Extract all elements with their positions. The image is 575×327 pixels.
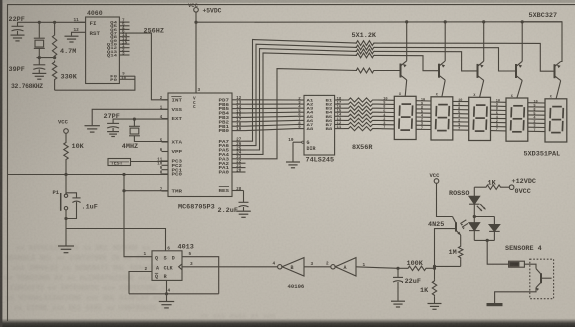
junction EXT-crystal: [133, 118, 136, 121]
wire: vertical net PC0-TMR-4013 Q: [124, 175, 152, 257]
wire: G to ground: [292, 142, 294, 161]
wire: crystal top lead: [38, 22, 40, 38]
wire: crystal to XTA: [134, 136, 168, 142]
svg-text:D: D: [172, 256, 175, 262]
svg-text:18: 18: [236, 124, 241, 128]
resistor 1M: [460, 259, 462, 266]
resistor 4.7M: [54, 22, 56, 33]
svg-text:5XBC327: 5XBC327: [529, 12, 558, 20]
svg-text:7: 7: [421, 127, 423, 131]
svg-text:25: 25: [236, 147, 241, 151]
svg-text:1: 1: [144, 252, 147, 257]
wire: collector Q5 to display DS5: [556, 81, 561, 99]
svg-text:R: R: [164, 274, 167, 280]
resistor network 8X56R element 3: [344, 106, 377, 110]
transistor Q3 BC327: [478, 61, 484, 80]
wire: collector Q3 to display DS3: [480, 80, 484, 97]
inverter U5B 40106: [278, 265, 282, 269]
wire: 1M bottom link: [435, 265, 461, 267]
svg-text:4N25: 4N25: [428, 221, 444, 229]
wire: inv A input net: [356, 267, 398, 269]
resistor 330K: [52, 61, 56, 82]
junction PC0-P1: [64, 173, 67, 176]
svg-text:Q: Q: [155, 274, 158, 280]
junction 100K-1K node: [433, 267, 436, 270]
capacitor 39PF: [38, 58, 40, 65]
svg-text:SENSORE 4: SENSORE 4: [505, 245, 542, 253]
svg-text:B: B: [291, 265, 294, 271]
display DS4 7-segment: [506, 95, 528, 141]
power terminal +12VDC / 0VCC: [509, 185, 514, 190]
wire: display segment bus: [377, 100, 545, 132]
svg-text:4: 4: [168, 288, 171, 293]
resistor 1K (12V): [484, 185, 503, 189]
wire: branch to 4013 S: [66, 229, 166, 251]
svg-text:16: 16: [236, 115, 241, 119]
wire: VCC to 4N25 collector: [437, 183, 453, 216]
transistor Q1 BC327: [401, 61, 407, 80]
svg-text:256HZ: 256HZ: [144, 27, 164, 35]
wire: PA staircase 3: [246, 49, 358, 150]
svg-text:11: 11: [337, 126, 342, 130]
display DS1 7-segment: [394, 93, 416, 139]
phototransistor Q6 (sensor): [540, 273, 542, 283]
ground (27PF): [107, 132, 119, 137]
svg-text:27PF: 27PF: [104, 113, 120, 121]
junction sensor branch: [486, 239, 489, 242]
svg-text:40106: 40106: [288, 283, 305, 290]
display DS2 7-segment: [431, 94, 453, 140]
capacitor 22PF: [12, 25, 24, 27]
resistor network 8X56R element 5: [344, 114, 377, 118]
svg-text:RES: RES: [219, 189, 230, 194]
svg-text:VPP: VPP: [172, 150, 183, 155]
wire: base route T5: [374, 43, 555, 71]
wire: to R4: [487, 240, 508, 264]
wire: PC0 net horizontal: [8, 174, 168, 176]
svg-text:TMR: TMR: [172, 190, 183, 195]
svg-text:6: 6: [167, 246, 170, 251]
svg-text:5X1.2K: 5X1.2K: [352, 32, 377, 40]
wire: base route T3: [374, 51, 478, 71]
svg-text:15: 15: [236, 110, 241, 114]
svg-text:C: C: [193, 105, 196, 110]
ground (39PF): [32, 73, 46, 79]
resistor network 8X56R element 1: [344, 98, 377, 102]
svg-text:20: 20: [236, 169, 241, 173]
wire: VSS to ground: [92, 109, 168, 125]
wire: PA staircase 2: [246, 44, 358, 145]
junction R-rail: [165, 292, 168, 295]
junction 1M bottom: [433, 265, 436, 268]
svg-text:21: 21: [236, 165, 241, 169]
wire: collector Q1 to display DS1: [405, 80, 407, 96]
svg-text:P0: P0: [110, 79, 118, 83]
svg-text:10K: 10K: [72, 143, 85, 151]
ground (22PF): [11, 35, 25, 41]
svg-text:+5VDC: +5VDC: [203, 8, 222, 15]
resistor 1.2K #2: [355, 45, 375, 50]
IC U3 74LS245 box: [304, 95, 335, 155]
optocoupler light arrows: [460, 220, 466, 224]
junction node crystal top: [38, 21, 41, 24]
junction VCC rail: [194, 21, 197, 24]
wire: VCC rail to transistors: [196, 21, 562, 23]
svg-text:B8: B8: [326, 128, 334, 132]
ground (sensor) thick bar: [487, 303, 503, 306]
wire: base route T2: [374, 55, 439, 70]
svg-text:3: 3: [198, 88, 201, 93]
svg-text:2.2uF: 2.2uF: [218, 207, 238, 215]
resistor network 8X56R element 6: [344, 118, 377, 122]
wire: PA staircase 4: [246, 53, 358, 154]
svg-text:VSS: VSS: [172, 108, 183, 113]
wire: VCC vertical to MCU pin 3: [195, 12, 197, 93]
svg-text:7: 7: [458, 128, 460, 132]
svg-text:17: 17: [236, 119, 241, 123]
transistor Q2 BC327: [439, 61, 445, 80]
svg-text:4.7M: 4.7M: [60, 48, 76, 56]
wire: base route T4: [374, 47, 516, 71]
junction PC0-TMR branch: [122, 173, 125, 176]
wire: junction to diode: [474, 216, 494, 218]
svg-text:+12VDC: +12VDC: [512, 178, 536, 186]
display gap pin numbers: [383, 98, 538, 133]
IC U4 4013 box: [152, 251, 182, 281]
svg-text:19: 19: [236, 128, 241, 132]
wire: base route T1: [374, 70, 401, 72]
diode D1 protection: [493, 217, 495, 225]
capacitor 27PF: [107, 122, 119, 124]
junction .22uF node: [396, 267, 399, 270]
svg-text:Q: Q: [155, 256, 158, 262]
svg-text:1M: 1M: [449, 249, 457, 257]
svg-text:100K: 100K: [407, 260, 424, 268]
wire: 1K down to LED: [473, 187, 475, 196]
LED 4N25 internal: [473, 217, 475, 223]
LED ROSSO (red indicator): [469, 196, 480, 204]
wire: PA staircase 1: [246, 40, 358, 142]
wire: emitter Q2 to VCC rail: [444, 22, 446, 61]
svg-text:XTA: XTA: [172, 141, 183, 146]
ground (4013): [159, 302, 174, 308]
transistor 4N25 phototransistor: [455, 222, 457, 231]
wire: collector Q2 to display DS2: [442, 80, 445, 97]
svg-text:13: 13: [236, 102, 241, 106]
junction P1 bottom: [64, 217, 67, 220]
resistor network 8X56R element 7: [344, 122, 377, 126]
junction LED-diode: [473, 215, 476, 218]
svg-text:4MHZ: 4MHZ: [122, 143, 138, 151]
svg-text:74LS245: 74LS245: [306, 156, 335, 164]
svg-text:A: A: [344, 265, 347, 271]
svg-text:39PF: 39PF: [9, 66, 25, 74]
ground (2.2uF): [236, 211, 251, 217]
svg-text:VCC: VCC: [58, 119, 69, 126]
display DS3 7-segment: [469, 94, 491, 140]
wire: LED to junction: [473, 204, 475, 216]
photo left edge: [0, 0, 2, 327]
IC U2 MC68705P3 box: [168, 93, 232, 197]
svg-text:S: S: [164, 256, 167, 262]
svg-text:A8: A8: [307, 128, 315, 132]
IC U1 4060 box: [86, 17, 120, 84]
wire: rail to ground: [166, 294, 168, 301]
svg-text:EXT: EXT: [172, 117, 183, 122]
wire: 10K to P1: [65, 161, 67, 195]
wire: PA staircase 5: [246, 69, 358, 159]
svg-text:26: 26: [236, 143, 241, 147]
svg-text:7: 7: [496, 128, 498, 132]
svg-text:.22uF: .22uF: [401, 278, 421, 286]
svg-text:1K: 1K: [420, 287, 429, 295]
wire: 330K to 4060 P0 pin loop: [55, 76, 135, 90]
svg-text:FI: FI: [90, 20, 97, 27]
junction TMR: [122, 189, 125, 192]
4013 pin labels: [155, 256, 175, 280]
svg-text:7: 7: [383, 126, 385, 130]
sensor dotted enclosure: [530, 259, 554, 299]
svg-text:1K: 1K: [488, 179, 497, 187]
svg-text:7: 7: [533, 129, 535, 133]
svg-text:A: A: [156, 265, 159, 271]
capacitor .22uF: [397, 268, 399, 277]
photo bottom edge shadow: [0, 319, 575, 327]
svg-text:22PF: 22PF: [9, 16, 25, 24]
wire: crystal bottom node: [37, 57, 55, 59]
resistor 100K: [406, 266, 428, 270]
wire: PB bus MCU to 74LS245: [246, 100, 297, 131]
LED emission arrows: [477, 206, 482, 211]
svg-text:4013: 4013: [178, 243, 194, 251]
resistor 1.2K #3: [355, 49, 375, 54]
inverter U5A 40106: [331, 265, 335, 269]
svg-text:MC68705P3: MC68705P3: [178, 204, 215, 212]
svg-text:23: 23: [236, 156, 241, 160]
wire: cathode rail: [474, 239, 494, 241]
svg-text:P1: P1: [53, 189, 60, 196]
wire: emitter Q4 to VCC rail: [521, 22, 523, 61]
resistor 1.2K #1: [355, 41, 375, 46]
capacitor 2.2uF: [239, 201, 249, 203]
wire: inv B to inv A: [304, 266, 331, 268]
svg-text:PA0: PA0: [219, 171, 230, 176]
wire: TMR branch: [124, 190, 168, 192]
wire: EXT net: [113, 119, 168, 123]
wire: FI net (22PF cap to 4060 pin 11): [18, 22, 86, 26]
svg-text:3: 3: [122, 52, 125, 57]
ground (1K): [428, 304, 442, 310]
wire: P1 to ground: [65, 210, 67, 246]
svg-text:RST: RST: [90, 30, 101, 37]
transistor Q5 BC327: [555, 62, 561, 81]
paper bleed-through text: [4, 245, 276, 321]
svg-text:2: 2: [326, 262, 329, 267]
crystal X1 32.768KHZ: [34, 37, 45, 39]
svg-text:14: 14: [236, 106, 241, 110]
svg-text:INT: INT: [172, 98, 183, 103]
resistor network 8X56R element 4: [344, 110, 377, 114]
wire: RES to 2.2uF: [243, 191, 245, 203]
resistor 1.2K #5: [355, 68, 375, 73]
resistor network 8X56R element 8: [344, 127, 377, 131]
display DS5 7-segment: [545, 96, 567, 142]
wire: sensor emitter to ground: [495, 288, 536, 304]
svg-text:0VCC: 0VCC: [515, 188, 531, 196]
svg-text:PB0: PB0: [219, 129, 230, 134]
wire: R4 to sensor: [524, 264, 536, 268]
4013 CLK edge arrow: [179, 264, 182, 270]
svg-text:DIR: DIR: [307, 146, 316, 152]
junction node 4.7M top: [53, 21, 56, 24]
transistor Q4 BC327: [516, 61, 522, 80]
svg-text:32.768KHZ: 32.768KHZ: [11, 83, 43, 90]
svg-text:ROSSO: ROSSO: [449, 190, 469, 198]
ground (4060 RST): [65, 36, 79, 42]
svg-text:8X56R: 8X56R: [352, 144, 373, 152]
wire: collector Q4 to display DS4: [517, 80, 522, 98]
capacitor .1uF: [66, 193, 77, 198]
svg-text:PC0: PC0: [172, 173, 183, 178]
svg-text:12: 12: [236, 97, 241, 101]
resistor 1K (pulldown): [434, 268, 436, 279]
ground (P1): [58, 246, 74, 253]
svg-text:10: 10: [157, 163, 162, 167]
ground (VSS): [85, 126, 100, 132]
svg-text:CLK: CLK: [164, 265, 173, 271]
svg-text:TEST: TEST: [111, 160, 123, 166]
wire: emitter Q1 to VCC rail: [406, 22, 408, 61]
svg-text:4: 4: [273, 262, 276, 267]
connector R4: [509, 261, 525, 267]
svg-text:28: 28: [236, 188, 241, 192]
svg-text:5XD351PAL: 5XD351PAL: [524, 150, 561, 158]
svg-text:.1uF: .1uF: [82, 204, 98, 212]
wire: node up to 4N25 base: [435, 229, 457, 269]
resistor 10K: [64, 141, 68, 161]
wire: 4013 bottom rail: [129, 293, 219, 295]
svg-text:R4: R4: [511, 264, 516, 268]
svg-text:4060: 4060: [87, 10, 103, 17]
TEST box: [108, 159, 131, 166]
ground (74LS245 G): [286, 162, 300, 168]
svg-text:24: 24: [236, 152, 241, 156]
wire: emitter Q3 to VCC rail: [483, 22, 485, 61]
svg-text:330K: 330K: [61, 74, 78, 82]
wire: emitter Q5 to VCC rail: [522, 22, 562, 62]
wire: 256HZ net 4060 Q7 to MCU INT: [119, 33, 168, 100]
crystal Y2 4MHZ: [133, 119, 135, 126]
svg-text:Q14: Q14: [107, 54, 118, 58]
svg-text:VCC: VCC: [430, 172, 441, 179]
resistor 1.2K #4: [355, 53, 375, 58]
svg-text:22: 22: [236, 161, 241, 165]
svg-text:27: 27: [236, 139, 241, 143]
ground (.22uF): [391, 301, 405, 307]
resistor network 8X56R element 2: [344, 102, 377, 106]
wire: TEST to PC3: [131, 161, 169, 163]
